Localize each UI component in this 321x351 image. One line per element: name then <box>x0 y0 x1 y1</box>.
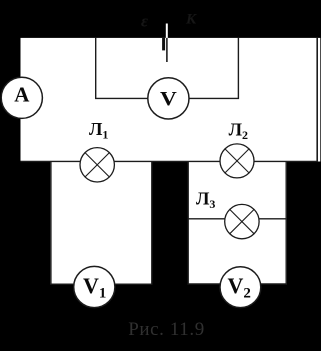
wire: left column right side <box>151 161 153 284</box>
wire: left column left side <box>50 161 52 284</box>
lamp L2 <box>220 144 254 178</box>
wire: right column right side <box>285 161 287 284</box>
svg-text:ε: ε <box>141 12 148 31</box>
voltmeter V <box>148 78 189 119</box>
battery: thick short plate <box>162 38 165 51</box>
voltmeter V2 <box>220 267 261 308</box>
battery: thin plate upper part (white on black band) <box>166 24 168 39</box>
wire: right column bottom through V2 <box>188 283 287 285</box>
svg-text:Рис. 11.9: Рис. 11.9 <box>128 319 205 340</box>
wire: lamp L3 branch <box>188 218 287 220</box>
paper right column <box>188 161 287 284</box>
lamp L1 <box>80 148 114 182</box>
paper left column <box>50 161 152 284</box>
battery: thin long plate lower part <box>166 38 168 62</box>
svg-text:К: К <box>185 12 197 28</box>
paper top rectangle <box>21 38 321 162</box>
wire: bottom of outer loop through lamps <box>21 160 319 162</box>
wire: voltmeter branch (inner loop) <box>96 38 239 99</box>
svg-text:V: V <box>160 88 177 110</box>
wire: right side of outer loop <box>316 38 318 162</box>
lamp L3 <box>225 204 259 238</box>
voltmeter V1 <box>74 266 115 307</box>
svg-text:A: A <box>14 83 30 107</box>
ammeter A <box>1 77 42 118</box>
wire: left column bottom through V1 <box>50 283 152 285</box>
wire: right column left side <box>187 161 189 284</box>
